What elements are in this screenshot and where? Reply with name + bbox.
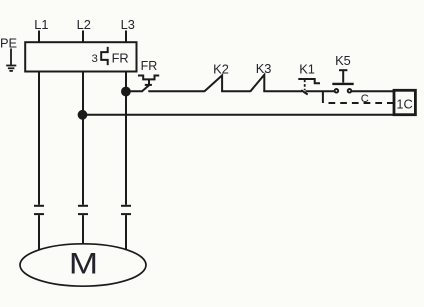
wire dot to FR contact <box>126 90 142 92</box>
contact K1 (NC, operated) <box>298 79 320 95</box>
svg-text:FR: FR <box>112 51 129 66</box>
mechanical linkage C (dashed) <box>329 102 394 104</box>
contact K3 (NC) <box>250 75 264 92</box>
svg-text:C: C <box>361 93 369 105</box>
contactor main contact 2 <box>78 206 88 245</box>
svg-text:PE: PE <box>0 36 17 51</box>
wire K1 to K5 <box>306 90 335 92</box>
return wire <box>83 114 395 116</box>
contactor main contact 1 <box>34 206 44 251</box>
thermal element symbol <box>101 47 108 65</box>
wire PE <box>10 49 12 66</box>
svg-text:L1: L1 <box>34 17 48 32</box>
contactor coil 1C box <box>394 90 415 114</box>
svg-text:3: 3 <box>92 53 98 65</box>
contact K2 (NC) <box>205 75 223 91</box>
svg-text:K2: K2 <box>213 61 229 76</box>
svg-text:M: M <box>69 248 98 281</box>
svg-text:K5: K5 <box>335 53 351 68</box>
wire L2 stub <box>82 31 84 44</box>
wire phase 1 upper <box>38 72 40 205</box>
wire L3 stub <box>125 31 127 44</box>
junction dot on L2 <box>78 110 88 120</box>
thermal overload relay FR box <box>25 42 136 71</box>
svg-text:L2: L2 <box>77 17 91 32</box>
wire K3 to K1 <box>263 90 302 92</box>
wire L1 stub <box>38 31 40 44</box>
svg-text:1C: 1C <box>396 96 412 111</box>
pushbutton K5 (NO) <box>332 70 353 92</box>
wire phase 2 upper <box>82 72 84 205</box>
linkage stub <box>322 91 324 103</box>
svg-text:K1: K1 <box>299 62 315 77</box>
wire phase 3 upper <box>125 72 127 205</box>
junction dot on L3 <box>121 87 131 97</box>
svg-text:L3: L3 <box>121 17 135 32</box>
svg-text:K3: K3 <box>256 61 272 76</box>
wire K5 to coil <box>352 90 394 92</box>
ground <box>6 66 16 71</box>
wire FR to K2 <box>148 90 205 92</box>
contactor main contact 3 <box>121 206 131 250</box>
wire K2 to K3 <box>221 90 251 92</box>
contact FR (NC, thermal trip) <box>138 76 159 92</box>
svg-text:FR: FR <box>141 59 158 73</box>
motor M <box>20 244 146 286</box>
